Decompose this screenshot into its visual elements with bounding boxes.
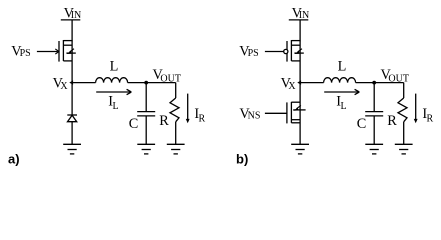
wire VPS to PMOS gate (b) [265, 51, 284, 53]
ground under resistor (b) [395, 144, 413, 154]
diode D (a) [67, 115, 77, 122]
transistor PMOS drain stub (b) [291, 60, 300, 62]
transistor NMOS source stub lower (b) [291, 122, 300, 124]
node VOUT junction dot (b) [372, 81, 376, 85]
wire PMOS source to VX (b) [299, 41, 301, 83]
current IL label (b) [336, 93, 346, 112]
svg-text:R: R [159, 113, 169, 129]
current IR label (b) [422, 106, 433, 124]
wire inductor to VOUT node (b) [356, 82, 404, 84]
node VX junction arrow (b) [297, 80, 301, 84]
node VOUT label (b) [381, 67, 409, 85]
svg-text:X: X [60, 81, 68, 92]
capacitor C (b) [365, 112, 383, 116]
svg-text:R: R [427, 114, 434, 125]
current arrow IL (b) [324, 89, 359, 94]
current IR label (a) [194, 106, 205, 124]
wire PMOS source to VX (a) [71, 41, 73, 83]
transistor PMOS bulk lead (a) [66, 52, 75, 54]
transistor PMOS bulk arrow (b) [295, 49, 303, 54]
wire VX to NMOS drain (b) [299, 83, 301, 145]
transistor NMOS source stub upper (b) [291, 119, 300, 121]
transistor PMOS source stub upper (a) [63, 40, 72, 42]
node VOUT label (a) [153, 67, 181, 85]
wire VIN to PMOS drain (a) [71, 20, 73, 41]
ground under resistor (a) [167, 144, 185, 154]
transistor PMOS channel bar (a) [62, 40, 64, 61]
node VPS label (b) [239, 43, 259, 59]
node VX label (b) [281, 75, 297, 92]
resistor R (b) [398, 98, 407, 122]
ground under NMOS (b) [291, 144, 309, 154]
wire resistor to ground (a) [175, 122, 177, 145]
power rail VIN bar (a) [61, 19, 81, 21]
wire VOUT to capacitor (a) [145, 83, 147, 112]
node VIN label (b) [292, 5, 310, 21]
transistor PMOS bulk lead (b) [294, 52, 303, 54]
wire VX to inductor (a) [72, 82, 96, 84]
wire VNS to NMOS gate (b) [265, 112, 287, 114]
svg-text:R: R [199, 114, 206, 125]
transistor NMOS drain stub (b) [291, 101, 300, 103]
current IL label (a) [108, 93, 118, 112]
wire VOUT to capacitor (b) [373, 83, 375, 112]
transistor PMOS drain stub (a) [63, 60, 72, 62]
resistor R (a) [170, 98, 179, 122]
wire diode to ground (a) [71, 122, 73, 145]
svg-text:PS: PS [248, 48, 259, 59]
PMOS gate bubble (b) [284, 49, 288, 53]
svg-text:L: L [110, 59, 119, 75]
inductor L (a) [96, 78, 128, 83]
PMOS gate arrowhead (a) [55, 49, 59, 54]
svg-text:a): a) [8, 151, 20, 166]
ground under diode (a) [63, 144, 81, 154]
svg-text:C: C [357, 116, 367, 132]
node VX label (a) [53, 75, 69, 92]
ground under capacitor (a) [137, 144, 155, 154]
wire capacitor to ground (a) [145, 116, 147, 144]
transistor PMOS source stub lower (a) [63, 44, 72, 46]
transistor PMOS gate bar (a) [58, 41, 60, 62]
wire VPS to PMOS gate (a) [37, 51, 58, 53]
wire VX to inductor (b) [300, 82, 324, 84]
wire inductor to VOUT node (a) [128, 82, 176, 84]
svg-text:L: L [338, 59, 347, 75]
transistor NMOS channel bar (b) [290, 102, 292, 123]
wire VIN to PMOS drain (b) [299, 20, 301, 41]
svg-text:b): b) [236, 151, 248, 166]
current arrow IR (a) [186, 94, 190, 124]
node VOUT junction dot (a) [144, 81, 148, 85]
transistor NMOS bulk lead (b) [293, 109, 305, 111]
transistor PMOS channel bar (b) [290, 40, 292, 61]
svg-text:PS: PS [20, 48, 31, 59]
svg-text:OUT: OUT [160, 74, 181, 85]
wire VOUT to resistor (b) [403, 83, 405, 98]
svg-text:L: L [113, 101, 119, 112]
node VX junction arrow (a) [69, 80, 73, 84]
node VIN label (a) [64, 5, 82, 21]
svg-text:R: R [387, 113, 397, 129]
transistor PMOS source stub upper (b) [291, 40, 300, 42]
transistor NMOS gate bar (b) [286, 102, 288, 123]
svg-text:C: C [129, 116, 139, 132]
wire VX to diode (a) [71, 83, 73, 115]
transistor PMOS source stub lower (b) [291, 44, 300, 46]
wire VOUT to resistor (a) [175, 83, 177, 98]
power rail VIN bar (b) [289, 19, 309, 21]
capacitor C (a) [137, 112, 155, 116]
svg-text:OUT: OUT [388, 74, 409, 85]
svg-text:X: X [288, 81, 296, 92]
transistor PMOS bulk arrow (a) [67, 49, 75, 54]
current arrow IL (a) [96, 89, 131, 94]
svg-text:L: L [341, 101, 347, 112]
transistor NMOS bulk arrow (b) [293, 105, 301, 110]
wire resistor to ground (b) [403, 122, 405, 145]
inductor L (b) [324, 78, 356, 83]
transistor PMOS gate bar (b) [286, 41, 288, 62]
ground under capacitor (b) [365, 144, 383, 154]
svg-text:NS: NS [248, 111, 261, 122]
current arrow IR (b) [414, 94, 418, 124]
node VPS label (a) [11, 43, 31, 59]
wire capacitor to ground (b) [373, 116, 375, 144]
node VNS label (b) [239, 106, 260, 122]
